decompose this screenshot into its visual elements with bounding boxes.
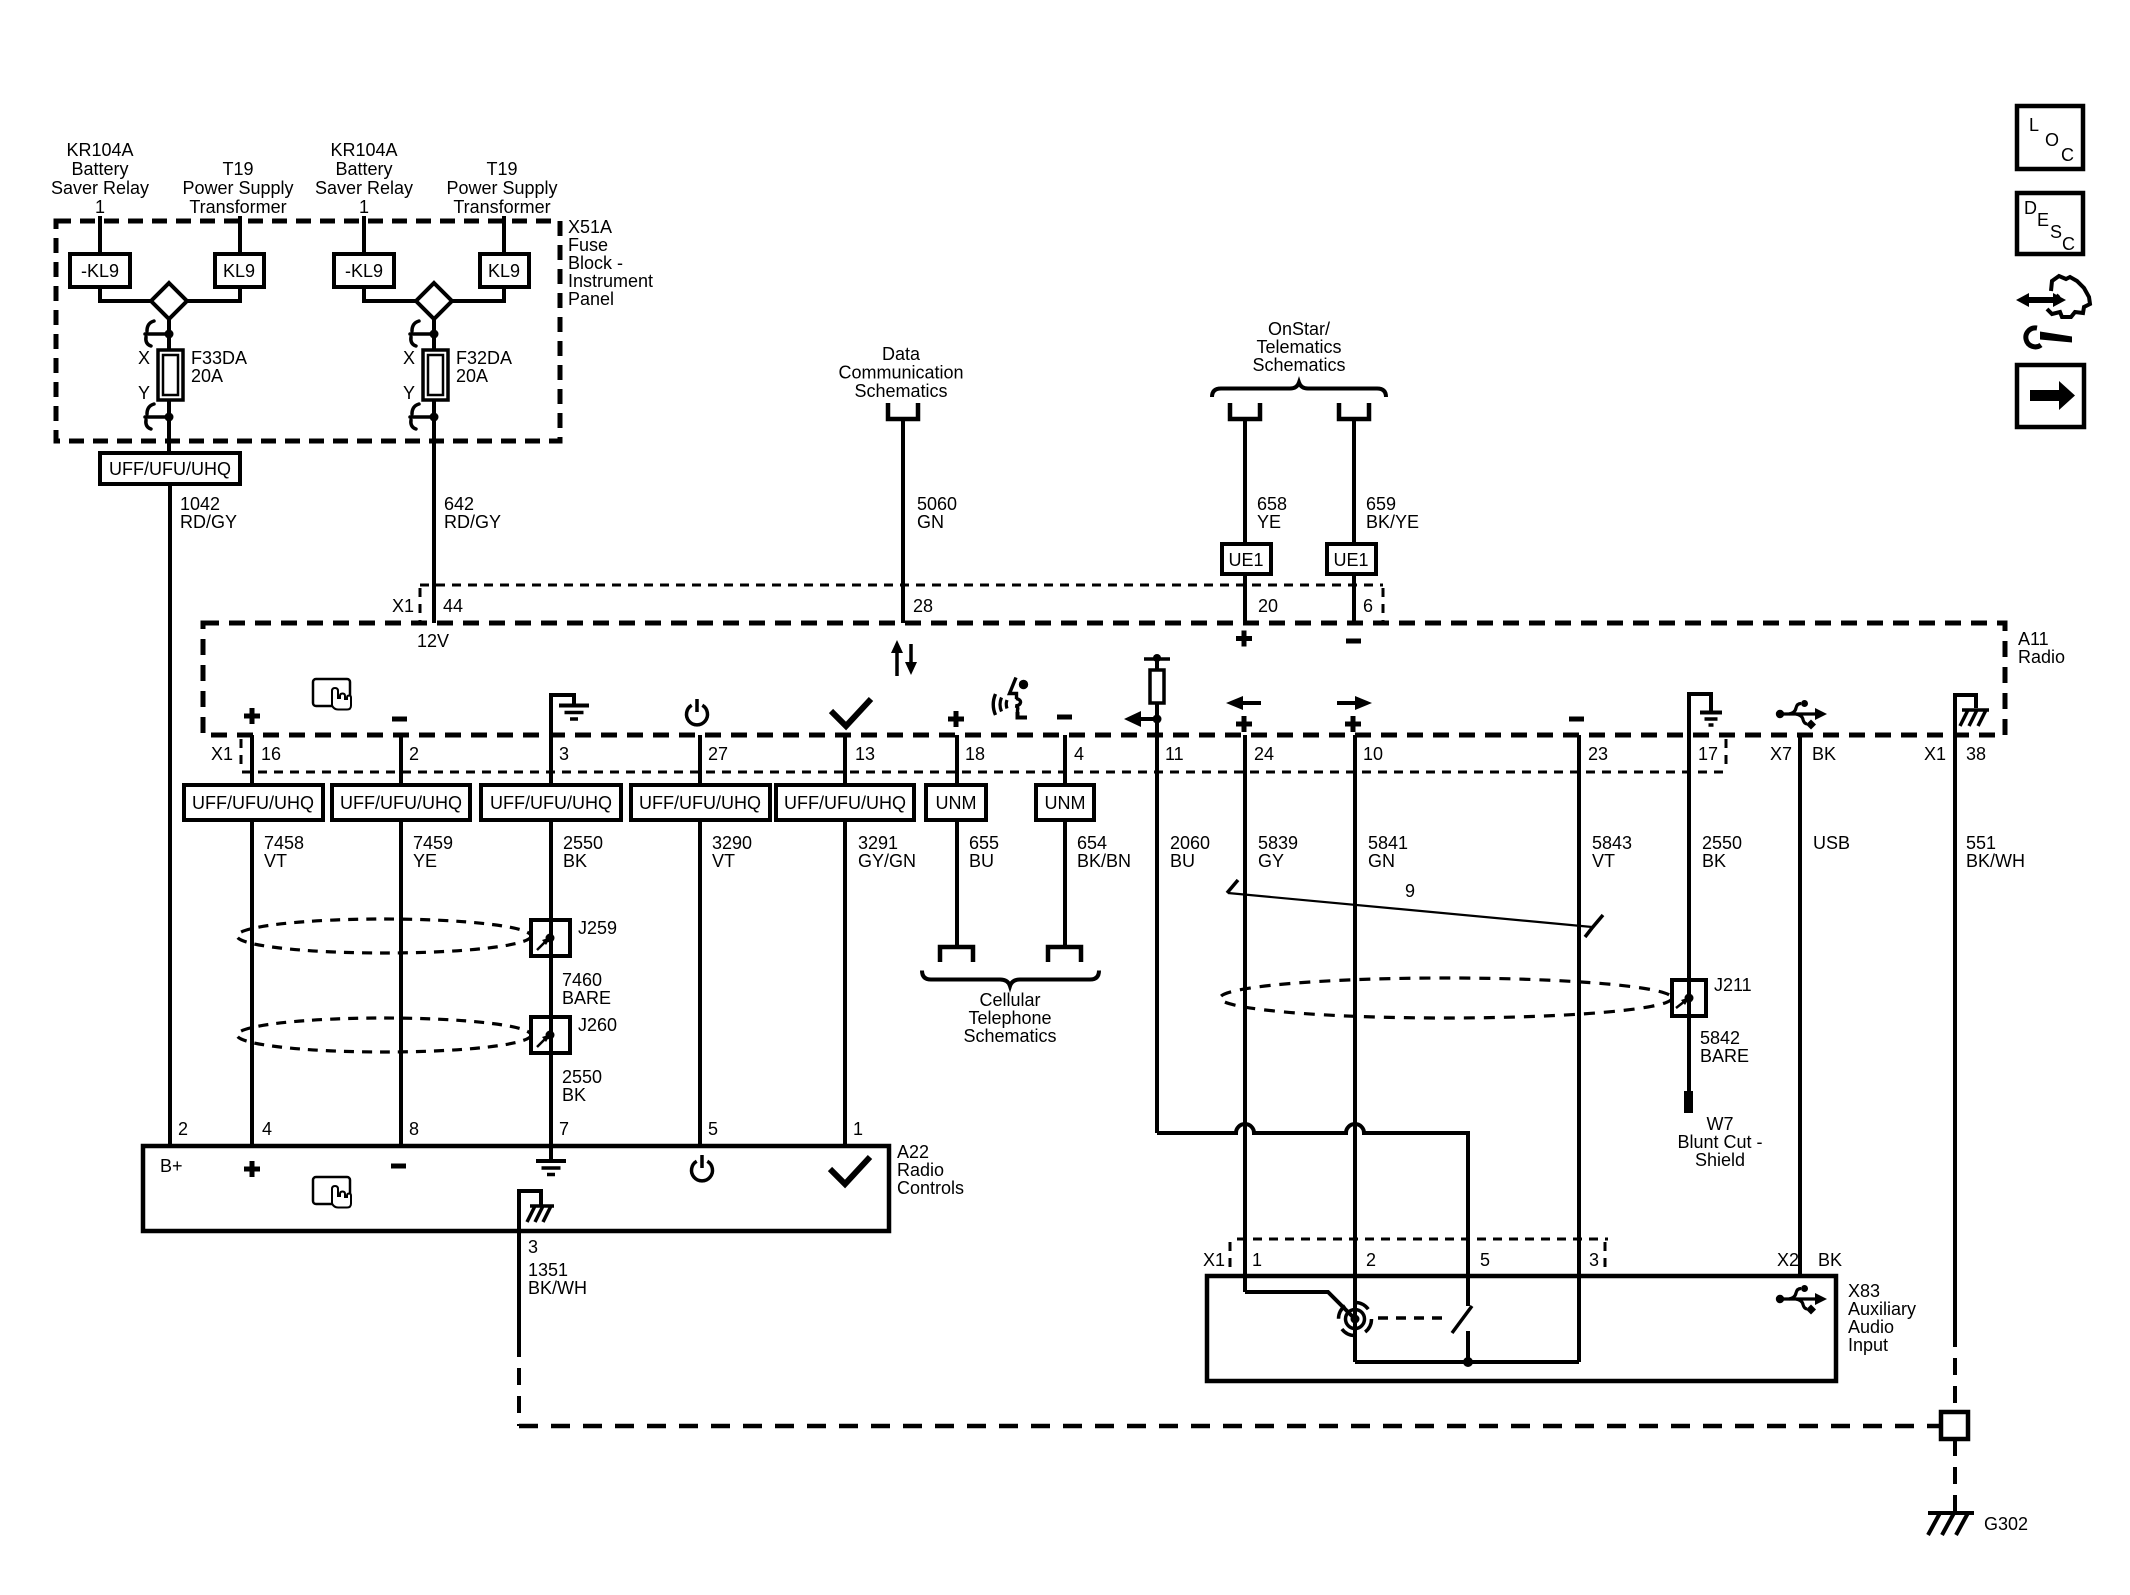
icon USB (X83 X2) xyxy=(1776,1285,1827,1315)
brace for OnStar/Telematics Schematics xyxy=(1212,383,1386,398)
svg-text:A11: A11 xyxy=(2018,629,2049,649)
wire from T19 (right) xyxy=(502,216,506,254)
wire label 658 YE xyxy=(1257,494,1287,532)
wire 659 BK/YE to UE1 xyxy=(1352,421,1356,544)
svg-text:F33DA: F33DA xyxy=(191,348,247,368)
svg-text:F32DA: F32DA xyxy=(456,348,512,368)
wire F33DA to UFF box xyxy=(167,400,171,453)
wire radio pin 18 to option box xyxy=(955,735,959,785)
svg-text:X1: X1 xyxy=(1924,744,1946,764)
svg-text:24: 24 xyxy=(1254,744,1274,764)
svg-text:1: 1 xyxy=(1252,1250,1262,1270)
svg-text:UE1: UE1 xyxy=(1228,550,1263,570)
svg-text:20: 20 xyxy=(1258,596,1278,616)
svg-text:X1: X1 xyxy=(392,596,414,616)
svg-text:VT: VT xyxy=(264,851,287,871)
svg-text:-KL9: -KL9 xyxy=(81,261,119,281)
svg-text:28: 28 xyxy=(913,596,933,616)
svg-text:6: 6 xyxy=(1363,596,1373,616)
wire label 5060 GN xyxy=(917,494,957,532)
nav icon DESC box xyxy=(2017,193,2083,254)
option box UFF/UFU/UHQ (circuit 3291) xyxy=(776,785,914,820)
svg-text:13: 13 xyxy=(855,744,875,764)
wire label 3291 GY/GN xyxy=(858,833,916,871)
wire radio pin 2 to option box xyxy=(399,735,403,785)
fuse block X51A dashed outline xyxy=(56,221,560,441)
auxiliary audio input X83 outline xyxy=(1207,1276,1836,1381)
wire 5060 GN to radio pin 28 xyxy=(901,421,905,623)
twisted pair shield ellipse (lower) xyxy=(237,1018,531,1052)
wire 551 BK/WH from radio pin 38 (solid part) xyxy=(1953,735,1957,1330)
svg-text:20A: 20A xyxy=(456,366,488,386)
svg-text:BARE: BARE xyxy=(1700,1046,1749,1066)
svg-text:BK/WH: BK/WH xyxy=(1966,851,2025,871)
svg-text:J259: J259 xyxy=(578,918,617,938)
svg-text:5: 5 xyxy=(1480,1250,1490,1270)
wire label 655 BU xyxy=(969,833,999,871)
junction dot below F32DA xyxy=(430,413,439,422)
wire 658 YE to UE1 xyxy=(1243,421,1247,544)
wire label 5839 GY xyxy=(1258,833,1298,871)
svg-text:5842: 5842 xyxy=(1700,1028,1740,1048)
off-page connector to OnStar (left) xyxy=(1230,403,1260,419)
fuse F33DA 20A xyxy=(158,350,183,400)
svg-text:UNM: UNM xyxy=(936,793,977,813)
svg-text:X2: X2 xyxy=(1777,1250,1799,1270)
svg-text:1: 1 xyxy=(853,1119,863,1139)
off-page connector to Data Communication Schematics xyxy=(888,403,918,419)
blunt cut W7 symbol xyxy=(1684,1091,1693,1113)
svg-text:5060: 5060 xyxy=(917,494,957,514)
svg-text:7: 7 xyxy=(559,1119,569,1139)
icon plus (pin 24) xyxy=(1236,716,1252,732)
wire 3290 VT to A22 pin 5 xyxy=(698,820,702,1146)
wire 7458 VT to A22 pin 4 xyxy=(250,820,254,1146)
svg-text:1: 1 xyxy=(359,197,369,217)
svg-text:2550: 2550 xyxy=(1702,833,1742,853)
svg-text:GN: GN xyxy=(1368,851,1395,871)
internal wire pin 1 to jack tip xyxy=(1245,1292,1355,1319)
icon power (pin 27) xyxy=(687,699,708,725)
svg-text:Cellular: Cellular xyxy=(979,990,1040,1010)
twisted pair shield ellipse (right, 5839/5841/5843) xyxy=(1220,978,1672,1018)
junction dot above F32DA xyxy=(430,330,439,339)
node OnStar/Telematics Schematics label xyxy=(1252,319,1345,375)
svg-text:44: 44 xyxy=(443,596,463,616)
icon signal ground (A22 pin 7) xyxy=(536,1146,566,1175)
svg-text:Y: Y xyxy=(138,383,150,403)
icon minus (pin 4) xyxy=(1057,715,1072,720)
off-page connector 654 to cellular telephone xyxy=(1048,947,1081,962)
icon minus (pin 2) xyxy=(392,717,407,722)
icon power (A22 pin 5) xyxy=(692,1155,713,1181)
ground G302 symbol xyxy=(1928,1513,1974,1535)
wire label 5842 BARE xyxy=(1700,1028,1749,1066)
svg-text:T19: T19 xyxy=(486,159,517,179)
terminal KL9 (right) xyxy=(480,254,529,287)
svg-text:BK/WH: BK/WH xyxy=(528,1278,587,1298)
icon check mark (pin 13) xyxy=(831,699,871,726)
svg-text:Schematics: Schematics xyxy=(963,1026,1056,1046)
svg-text:Battery: Battery xyxy=(335,159,392,179)
svg-text:A22: A22 xyxy=(897,1142,929,1162)
terminal KL9 (left) xyxy=(215,254,264,287)
svg-text:4: 4 xyxy=(1074,744,1084,764)
wire 2060 BU from radio pin 11 xyxy=(1155,719,1159,1133)
svg-text:UFF/UFU/UHQ: UFF/UFU/UHQ xyxy=(490,793,612,813)
wire 3291 GY/GN to A22 pin 1 xyxy=(843,820,847,1146)
svg-text:BARE: BARE xyxy=(562,988,611,1008)
svg-text:O: O xyxy=(2045,130,2059,150)
splice J211 xyxy=(1672,980,1706,1016)
svg-text:X: X xyxy=(403,348,415,368)
auxiliary audio input X83 label xyxy=(1848,1281,1916,1355)
fuse block X51A label xyxy=(568,217,653,309)
icon plus (pin 20) xyxy=(1236,631,1252,647)
wire 2060 BU horizontal run with hops to X83 pin 5 xyxy=(1157,1124,1468,1306)
svg-text:38: 38 xyxy=(1966,744,1986,764)
wire 1351 BK/WH dashed horizontal to G302 xyxy=(519,1424,1941,1429)
svg-text:X1: X1 xyxy=(1203,1250,1225,1270)
svg-text:KR104A: KR104A xyxy=(330,140,397,160)
svg-text:16: 16 xyxy=(261,744,281,764)
svg-text:UFF/UFU/UHQ: UFF/UFU/UHQ xyxy=(340,793,462,813)
svg-text:GN: GN xyxy=(917,512,944,532)
relay KR104A Battery Saver Relay 1 label (right) xyxy=(315,140,413,217)
svg-text:Communication: Communication xyxy=(838,363,963,383)
wire label 2550 BK (lower) xyxy=(562,1067,602,1105)
splice J260 xyxy=(531,1017,570,1053)
internal chassis ground (A22 pin 3) xyxy=(519,1191,554,1231)
svg-text:Auxiliary: Auxiliary xyxy=(1848,1299,1916,1319)
icon minus (pin 6) xyxy=(1346,639,1361,644)
wire label 5841 GN xyxy=(1368,833,1408,871)
svg-text:Controls: Controls xyxy=(897,1178,964,1198)
svg-text:Saver Relay: Saver Relay xyxy=(315,178,413,198)
svg-text:UFF/UFU/UHQ: UFF/UFU/UHQ xyxy=(109,459,231,479)
diamond junction (right) xyxy=(416,283,452,319)
svg-text:3290: 3290 xyxy=(712,833,752,853)
transformer T19 Power Supply Transformer label (left) xyxy=(182,159,293,217)
option box UFF/UFU/UHQ (circuit 7458) xyxy=(184,785,323,820)
option box UNM (circuit 655) xyxy=(926,785,986,820)
svg-text:Saver Relay: Saver Relay xyxy=(51,178,149,198)
internal dashed link jack to switch xyxy=(1378,1316,1450,1320)
svg-text:7459: 7459 xyxy=(413,833,453,853)
fuse F32DA value label xyxy=(456,348,512,386)
icon left arrow (pin 24) xyxy=(1226,696,1261,710)
svg-text:659: 659 xyxy=(1366,494,1396,514)
svg-text:Transformer: Transformer xyxy=(453,197,550,217)
svg-text:UNM: UNM xyxy=(1045,793,1086,813)
svg-text:X1: X1 xyxy=(211,744,233,764)
icon antenna resistor (pin 11) xyxy=(1124,654,1170,727)
option box UFF/UFU/UHQ (top) xyxy=(100,453,240,484)
clip symbol below F33DA xyxy=(145,404,166,429)
wire label 654 BK/BN xyxy=(1077,833,1131,871)
svg-text:BK: BK xyxy=(1702,851,1726,871)
svg-text:BK: BK xyxy=(1818,1250,1842,1270)
wire UE1 to radio pin 6 xyxy=(1352,574,1356,623)
wire 551 dashed to ground square xyxy=(1953,1330,1957,1412)
icon plus (A22 pin 4) xyxy=(244,1161,260,1177)
svg-text:GY: GY xyxy=(1258,851,1284,871)
icon data up/down arrows (pin 28) xyxy=(891,640,917,676)
svg-text:YE: YE xyxy=(1257,512,1281,532)
wire label 7460 BARE xyxy=(562,970,611,1008)
svg-text:11: 11 xyxy=(1165,744,1184,764)
splice J259 xyxy=(531,920,570,956)
wire 2550 BK to A22 pin 7 xyxy=(549,820,553,1146)
svg-text:Instrument: Instrument xyxy=(568,271,653,291)
audio jack symbol xyxy=(1339,1303,1372,1336)
svg-text:BK: BK xyxy=(562,1085,586,1105)
nav icon next arrow box xyxy=(2017,365,2084,427)
wire 7459 YE to A22 pin 8 xyxy=(399,820,403,1146)
svg-text:VT: VT xyxy=(1592,851,1615,871)
wire from KR104A-1 (left) xyxy=(98,216,102,254)
svg-text:BU: BU xyxy=(1170,851,1195,871)
icon signal ground (pin 3) xyxy=(551,695,589,736)
svg-text:Radio: Radio xyxy=(897,1160,944,1180)
svg-text:3291: 3291 xyxy=(858,833,898,853)
svg-text:J260: J260 xyxy=(578,1015,617,1035)
svg-text:655: 655 xyxy=(969,833,999,853)
svg-text:Telephone: Telephone xyxy=(968,1008,1051,1028)
svg-text:Schematics: Schematics xyxy=(1252,355,1345,375)
svg-text:7460: 7460 xyxy=(562,970,602,990)
diamond junction (left) xyxy=(151,283,187,319)
wire 1351 BK/WH from A22 pin 3 (solid part) xyxy=(517,1231,521,1340)
svg-text:BK: BK xyxy=(1812,744,1836,764)
icon touch screen (A22) xyxy=(313,1177,351,1208)
wire KL9 to diamond (right) xyxy=(452,287,504,301)
svg-text:17: 17 xyxy=(1698,744,1718,764)
svg-text:27: 27 xyxy=(708,744,728,764)
internal switch lower contact wire xyxy=(1466,1331,1470,1362)
wire USB BK from radio X7 to X83 X2 xyxy=(1798,735,1802,1276)
icon plus (pin 10) xyxy=(1345,716,1361,732)
svg-text:7458: 7458 xyxy=(264,833,304,853)
svg-text:20A: 20A xyxy=(191,366,223,386)
option box UE1 (right) xyxy=(1327,544,1376,574)
svg-text:Radio: Radio xyxy=(2018,647,2065,667)
svg-text:T19: T19 xyxy=(222,159,253,179)
wire label 659 BK/YE xyxy=(1366,494,1419,532)
wire label 7459 YE xyxy=(413,833,453,871)
wire 5839 GY from radio pin 24 to X83 pin 1 xyxy=(1243,735,1247,1292)
svg-text:C: C xyxy=(2061,145,2074,165)
svg-text:654: 654 xyxy=(1077,833,1107,853)
nav icon LOC box xyxy=(2017,106,2083,169)
junction dot below F33DA xyxy=(165,413,174,422)
svg-text:W7: W7 xyxy=(1707,1114,1734,1134)
svg-text:Panel: Panel xyxy=(568,289,614,309)
svg-text:X51A: X51A xyxy=(568,217,612,237)
wire 2550 BK from radio pin 17 to J211 xyxy=(1687,735,1691,980)
svg-text:L: L xyxy=(2029,115,2039,135)
wire radio pin 13 to option box xyxy=(843,735,847,785)
wire UE1 to radio pin 20 xyxy=(1243,574,1247,623)
icon touch screen (pin 16 area) xyxy=(313,679,351,710)
blunt cut W7 label xyxy=(1677,1114,1762,1170)
svg-text:GY/GN: GY/GN xyxy=(858,851,916,871)
wire 1351 BK/WH dashed vertical xyxy=(517,1340,521,1426)
nav icon compare (arrows, car, wrench) xyxy=(2016,276,2090,347)
svg-text:2: 2 xyxy=(178,1119,188,1139)
svg-text:D: D xyxy=(2024,198,2037,218)
radio controls A22 outline xyxy=(143,1146,889,1231)
clip symbol above F33DA xyxy=(145,321,166,346)
svg-text:OnStar/: OnStar/ xyxy=(1268,319,1330,339)
svg-text:5: 5 xyxy=(708,1119,718,1139)
icon check mark (A22 pin 1) xyxy=(830,1157,870,1184)
internal switch blade (detect switch) xyxy=(1452,1306,1472,1333)
junction dot above F33DA xyxy=(165,330,174,339)
ground splice square (G302 feed) xyxy=(1941,1412,1968,1439)
wire radio pin 27 to option box xyxy=(698,735,702,785)
wire radio pin 4 to option box xyxy=(1063,735,1067,785)
connector strip X1 top (thin dashed) xyxy=(420,585,1383,621)
wire 5842 BARE from J211 to blunt cut xyxy=(1687,1016,1691,1091)
svg-text:1042: 1042 xyxy=(180,494,220,514)
option box UFF/UFU/UHQ (circuit 2550) xyxy=(481,785,621,820)
wire diamond to fuse F33DA xyxy=(167,319,171,350)
svg-text:X83: X83 xyxy=(1848,1281,1880,1301)
svg-text:12V: 12V xyxy=(417,631,449,651)
wire label 2550 BK (right) xyxy=(1702,833,1742,871)
svg-text:S: S xyxy=(2050,222,2062,242)
svg-text:23: 23 xyxy=(1588,744,1608,764)
svg-text:Telematics: Telematics xyxy=(1256,337,1341,357)
wire 5841 GN from radio pin 10 to X83 pin 2 xyxy=(1353,735,1357,1362)
icon minus (pin 23) xyxy=(1569,717,1584,722)
relay KR104A Battery Saver Relay 1 label (left) xyxy=(51,140,149,217)
option box UE1 (left) xyxy=(1222,544,1271,574)
internal junction dot xyxy=(1463,1357,1473,1367)
wire label 2550 BK (upper) xyxy=(563,833,603,871)
wire label 551 BK/WH xyxy=(1966,833,2025,871)
option box UFF/UFU/UHQ (circuit 3290) xyxy=(631,785,770,820)
svg-text:Shield: Shield xyxy=(1695,1150,1745,1170)
wire from KR104A-1 (right) xyxy=(362,216,366,254)
svg-text:VT: VT xyxy=(712,851,735,871)
clip symbol below F32DA xyxy=(410,404,431,429)
fuse F33DA value label xyxy=(191,348,247,386)
svg-text:5839: 5839 xyxy=(1258,833,1298,853)
radio A11 label xyxy=(2018,629,2065,667)
svg-text:B+: B+ xyxy=(160,1156,183,1176)
dashed wire square to G302 xyxy=(1953,1439,1957,1511)
off-page connector to OnStar (right) xyxy=(1339,403,1369,419)
wire from T19 (left) xyxy=(238,216,242,254)
radio A11 dashed outline xyxy=(203,623,2005,735)
svg-text:1351: 1351 xyxy=(528,1260,568,1280)
wire label 3290 VT xyxy=(712,833,752,871)
icon USB (pin X7) xyxy=(1776,700,1827,730)
svg-text:Audio: Audio xyxy=(1848,1317,1894,1337)
svg-text:2550: 2550 xyxy=(562,1067,602,1087)
svg-text:551: 551 xyxy=(1966,833,1996,853)
wire label 5843 VT xyxy=(1592,833,1632,871)
svg-text:UFF/UFU/UHQ: UFF/UFU/UHQ xyxy=(192,793,314,813)
terminal -KL9 (right) xyxy=(334,254,394,287)
off-page connector 655 to cellular telephone xyxy=(940,947,973,962)
svg-text:642: 642 xyxy=(444,494,474,514)
icon right arrow (pin 10) xyxy=(1337,696,1372,710)
svg-text:658: 658 xyxy=(1257,494,1287,514)
wire 654 BK/BN to off-page xyxy=(1063,820,1067,947)
callout line 9 (twisted pair) xyxy=(1227,880,1603,937)
clip symbol above F32DA xyxy=(410,321,431,346)
svg-text:X: X xyxy=(138,348,150,368)
wire radio pin 16 to option box xyxy=(250,735,254,785)
svg-text:3: 3 xyxy=(1589,1250,1599,1270)
wire 1042 RD/GY from UFF box to A22 pin 2 xyxy=(168,484,172,1146)
transformer T19 Power Supply Transformer label (right) xyxy=(446,159,557,217)
wire -KL9 to diamond (right) xyxy=(364,287,416,301)
svg-text:5843: 5843 xyxy=(1592,833,1632,853)
svg-text:Power Supply: Power Supply xyxy=(446,178,557,198)
icon chassis ground (pin 38) xyxy=(1955,695,1989,736)
svg-text:5841: 5841 xyxy=(1368,833,1408,853)
svg-text:KR104A: KR104A xyxy=(66,140,133,160)
svg-text:4: 4 xyxy=(262,1119,272,1139)
svg-text:2: 2 xyxy=(1366,1250,1376,1270)
svg-text:10: 10 xyxy=(1363,744,1383,764)
svg-text:1: 1 xyxy=(95,197,105,217)
svg-text:C: C xyxy=(2062,234,2075,254)
brace for Cellular Telephone Schematics xyxy=(922,971,1099,987)
option box UFF/UFU/UHQ (circuit 7459) xyxy=(332,785,470,820)
wire 5843 VT from radio pin 23 to X83 pin 3 xyxy=(1577,735,1581,1362)
wire label 2060 BU xyxy=(1170,833,1210,871)
svg-text:UFF/UFU/UHQ: UFF/UFU/UHQ xyxy=(784,793,906,813)
icon minus (A22 pin 8) xyxy=(391,1164,406,1169)
svg-text:2550: 2550 xyxy=(563,833,603,853)
connector strip X1 bottom (thin dashed) xyxy=(241,739,1726,772)
wire label 1042 RD/GY xyxy=(180,494,237,532)
svg-text:BK/BN: BK/BN xyxy=(1077,851,1131,871)
wire label 7458 VT xyxy=(264,833,304,871)
svg-text:8: 8 xyxy=(409,1119,419,1139)
twisted pair shield ellipse (upper, 7458/7459) xyxy=(237,919,531,953)
svg-text:RD/GY: RD/GY xyxy=(444,512,501,532)
svg-text:UFF/UFU/UHQ: UFF/UFU/UHQ xyxy=(639,793,761,813)
internal bottom rail wire xyxy=(1355,1360,1579,1364)
svg-text:Block -: Block - xyxy=(568,253,623,273)
svg-text:Data: Data xyxy=(882,344,921,364)
wire 642 RD/GY from F32DA to radio pin 44 xyxy=(432,400,436,623)
svg-text:X7: X7 xyxy=(1770,744,1792,764)
svg-text:9: 9 xyxy=(1405,881,1415,901)
svg-text:Schematics: Schematics xyxy=(854,381,947,401)
option box UNM (circuit 654) xyxy=(1036,785,1094,820)
icon plus (pin 18) xyxy=(948,711,964,727)
icon plus (pin 16) xyxy=(244,708,260,724)
svg-text:RD/GY: RD/GY xyxy=(180,512,237,532)
wire 655 BU to off-page xyxy=(955,820,959,947)
terminal -KL9 (left) xyxy=(70,254,130,287)
svg-text:Transformer: Transformer xyxy=(189,197,286,217)
svg-text:BK: BK xyxy=(563,851,587,871)
svg-text:BK/YE: BK/YE xyxy=(1366,512,1419,532)
wire radio pin 3 to option box xyxy=(549,735,553,785)
svg-text:Y: Y xyxy=(403,383,415,403)
svg-text:J211: J211 xyxy=(1714,975,1752,995)
wire label 642 RD/GY xyxy=(444,494,501,532)
connector strip X1 (X83, thin dashed) xyxy=(1230,1239,1608,1270)
